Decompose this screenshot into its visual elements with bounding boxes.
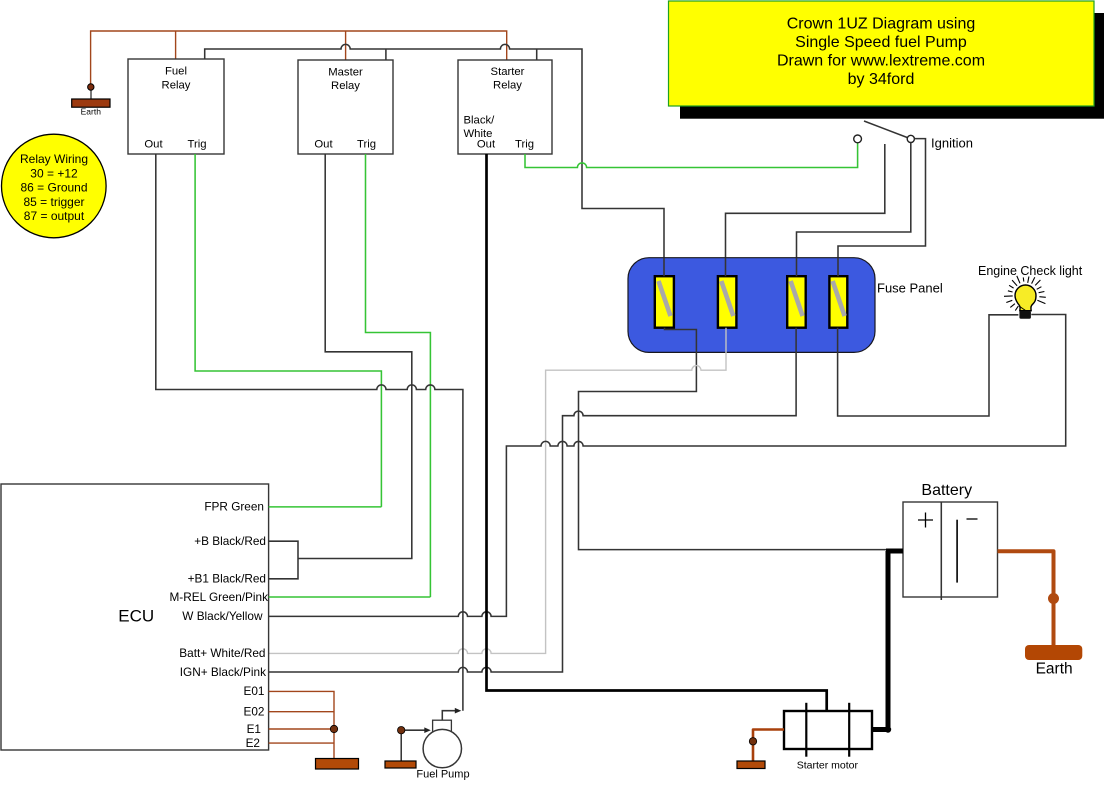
svg-text:Trig: Trig: [187, 139, 206, 151]
svg-text:Engine Check light: Engine Check light: [978, 264, 1083, 278]
svg-text:E1: E1: [247, 722, 261, 736]
svg-text:Batt+ White/Red: Batt+ White/Red: [179, 646, 265, 660]
svg-text:Single Speed fuel Pump: Single Speed fuel Pump: [795, 34, 967, 51]
svg-text:Relay Wiring: Relay Wiring: [20, 152, 88, 166]
svg-text:85 = trigger: 85 = trigger: [23, 195, 84, 209]
svg-text:Relay: Relay: [331, 80, 360, 92]
svg-text:Starter: Starter: [491, 66, 525, 78]
svg-text:Ignition: Ignition: [931, 136, 973, 151]
svg-text:Black/: Black/: [464, 115, 496, 127]
svg-text:ECU: ECU: [118, 606, 154, 625]
svg-text:+B Black/Red: +B Black/Red: [194, 534, 266, 548]
svg-text:87 = output: 87 = output: [24, 209, 85, 223]
svg-text:Out: Out: [144, 139, 163, 151]
svg-text:Out: Out: [477, 139, 496, 151]
svg-text:Crown 1UZ Diagram using: Crown 1UZ Diagram using: [787, 16, 976, 33]
svg-text:Battery: Battery: [921, 482, 972, 499]
svg-text:E02: E02: [244, 705, 265, 719]
svg-text:Starter motor: Starter motor: [797, 759, 859, 771]
svg-text:Relay: Relay: [493, 80, 522, 92]
svg-text:30 = +12: 30 = +12: [30, 166, 78, 180]
svg-text:Master: Master: [328, 67, 363, 79]
svg-text:E01: E01: [244, 684, 265, 698]
svg-text:Relay: Relay: [162, 79, 191, 91]
svg-text:Earth: Earth: [1036, 660, 1073, 677]
svg-text:Fuel Pump: Fuel Pump: [416, 769, 469, 781]
svg-text:by 34ford: by 34ford: [848, 71, 915, 88]
svg-text:Out: Out: [314, 139, 333, 151]
svg-text:Trig: Trig: [357, 139, 376, 151]
svg-text:Fuel: Fuel: [165, 66, 187, 78]
svg-text:FPR Green: FPR Green: [204, 500, 264, 514]
svg-text:E2: E2: [246, 736, 260, 750]
svg-text:IGN+ Black/Pink: IGN+ Black/Pink: [180, 665, 266, 679]
svg-text:86 = Ground: 86 = Ground: [20, 181, 87, 195]
svg-text:Trig: Trig: [515, 139, 534, 151]
svg-text:Drawn for www.lextreme.com: Drawn for www.lextreme.com: [777, 53, 985, 70]
svg-text:Fuse Panel: Fuse Panel: [877, 281, 943, 296]
svg-text:W Black/Yellow: W Black/Yellow: [182, 609, 263, 623]
svg-text:M-REL Green/Pink: M-REL Green/Pink: [169, 590, 268, 604]
svg-text:+B1 Black/Red: +B1 Black/Red: [188, 572, 266, 586]
svg-text:Earth: Earth: [81, 107, 102, 117]
